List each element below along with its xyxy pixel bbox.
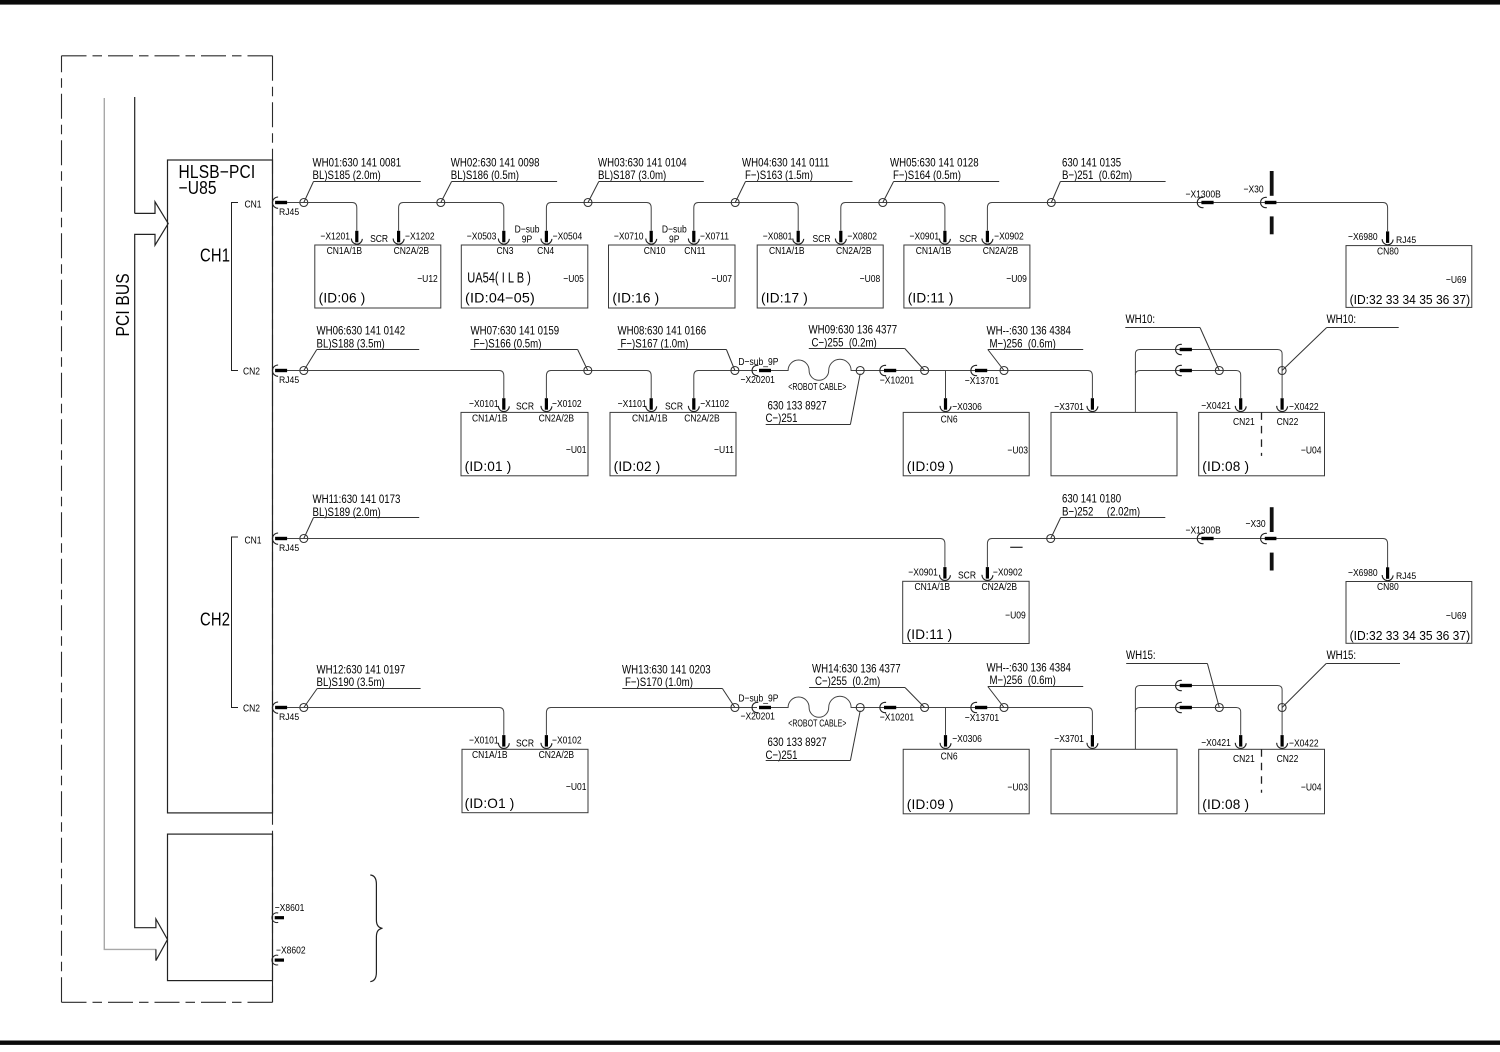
unit box terminal box row2 (1051, 412, 1177, 475)
plug connector -X0306 (CH2) (940, 735, 951, 748)
svg-text:C−)255 (0.2m): C−)255 (0.2m) (815, 675, 881, 688)
plug connector -X0711 (688, 231, 699, 244)
node junction WH09 (921, 367, 929, 375)
plug connector -X3701 (1087, 398, 1098, 411)
node junction WH15 left (1215, 704, 1223, 712)
cable label C-)251 (CH2) (766, 711, 861, 762)
svg-text:PCI BUS: PCI BUS (113, 273, 134, 336)
svg-text:CN1: CN1 (245, 535, 262, 547)
cable label C-)251 (766, 374, 861, 426)
inline connector -X10201 (CH2) (880, 702, 896, 712)
svg-text:CN2A/2B: CN2A/2B (539, 749, 575, 761)
node junction B-)252 (1047, 535, 1055, 543)
svg-text:F−)S164 (0.5m): F−)S164 (0.5m) (893, 169, 961, 182)
cable label WH01 (304, 156, 421, 202)
svg-text:−U01: −U01 (566, 781, 587, 793)
svg-text:(ID:02 ): (ID:02 ) (614, 459, 661, 474)
unit box U69 CN80 (ID:32-37) row1 (1346, 246, 1472, 308)
svg-text:(ID:09 ): (ID:09 ) (907, 797, 954, 812)
node junction WH08 (731, 367, 739, 375)
wire -X0902 to -X6980 (CH2) (987, 539, 1387, 568)
svg-text:SCR: SCR (958, 570, 976, 582)
svg-text:BL)S190 (3.5m): BL)S190 (3.5m) (317, 676, 385, 689)
wire robot cable to -X3701 (856, 371, 1092, 399)
svg-text:−X10201: −X10201 (880, 712, 914, 724)
svg-text:−X0422: −X0422 (1289, 738, 1319, 750)
svg-text:CN2A/2B: CN2A/2B (684, 413, 720, 425)
svg-text:SCR: SCR (665, 401, 683, 413)
svg-text:−U11: −U11 (714, 444, 734, 456)
svg-text:−X0101: −X0101 (469, 398, 499, 410)
node junction WH04/WH05 (879, 199, 887, 207)
svg-text:−X0503: −X0503 (467, 231, 497, 243)
svg-text:RJ45: RJ45 (279, 206, 299, 217)
svg-text:SCR: SCR (516, 738, 534, 750)
svg-text:−U69: −U69 (1446, 274, 1467, 286)
svg-text:CN1A/1B: CN1A/1B (472, 413, 508, 425)
svg-text:CN1A/1B: CN1A/1B (916, 245, 952, 257)
svg-text:−X1300B: −X1300B (1186, 525, 1221, 537)
svg-text:(ID:09 ): (ID:09 ) (907, 459, 954, 474)
plug connector -X0102 (CH2) (541, 735, 552, 748)
svg-text:CN11: CN11 (684, 245, 705, 257)
svg-text:(ID:11 ): (ID:11 ) (907, 627, 953, 642)
svg-text:−X0710: −X0710 (614, 231, 644, 243)
svg-text:F−)S163 (1.5m): F−)S163 (1.5m) (745, 169, 813, 182)
wire CN1 to -X1201 (287, 203, 357, 231)
svg-text:WH06:630 141 0142: WH06:630 141 0142 (317, 325, 406, 338)
bulkhead -X30 (1261, 171, 1277, 234)
svg-text:BL)S185 (2.0m): BL)S185 (2.0m) (313, 169, 381, 182)
PCI bus black line (134, 97, 136, 213)
plug connector -X0504 (541, 231, 552, 244)
svg-text:−X30: −X30 (1244, 184, 1264, 196)
svg-text:RJ45: RJ45 (279, 711, 299, 722)
node junction WH07 (584, 367, 592, 375)
svg-text:−U09: −U09 (1005, 610, 1026, 622)
svg-text:WH15:: WH15: (1327, 649, 1357, 662)
svg-text:C−)251: C−)251 (766, 412, 798, 425)
wire -X1202 to -X0503 (399, 203, 504, 231)
svg-text:(ID:32 33 34 35 36 37): (ID:32 33 34 35 36 37) (1350, 628, 1471, 643)
plug connector -X0421 (1235, 398, 1246, 411)
unit box U09 (ID:11) row1 (904, 245, 1030, 308)
svg-text:CN3: CN3 (497, 245, 514, 257)
node junction robot cable end (CH2) (856, 704, 864, 712)
cable label WH05 (883, 156, 999, 202)
svg-text:CN22: CN22 (1277, 753, 1299, 765)
robot cable squiggle (CH2) (771, 696, 856, 717)
unit box U12 (ID:06) (315, 245, 441, 308)
unit box U05 UA54 (ID:04-05) (461, 245, 588, 308)
cable label B-)252 (1051, 492, 1166, 538)
svg-text:BL)S187 (3.0m): BL)S187 (3.0m) (598, 169, 666, 182)
bottom page border rule (0, 1041, 1500, 1045)
plug connector -X0902 (982, 231, 993, 244)
svg-text:CN21: CN21 (1233, 753, 1255, 765)
plug connector -X0101 (498, 398, 509, 411)
CH2 channel bracket (232, 537, 239, 708)
node junction WH13 (731, 704, 739, 712)
connector -X20201 (CH2) (752, 702, 771, 712)
cable label WH10 right (1282, 313, 1399, 371)
bulkhead -X30 (CH2) (1261, 507, 1277, 570)
wire -X1102 to -X20201 (694, 371, 757, 399)
inline connector lower pair hook (1176, 365, 1192, 375)
cable label WH04 (735, 156, 852, 202)
svg-text:−X0504: −X0504 (553, 231, 583, 243)
unit box terminal box row4 (1051, 749, 1177, 814)
svg-text:M−)256 (0.6m): M−)256 (0.6m) (990, 337, 1057, 350)
lower interface box (168, 834, 273, 981)
ID:08 divider (CH2) (1261, 749, 1263, 793)
svg-text:CN2A/2B: CN2A/2B (982, 581, 1018, 593)
node junction WH01/WH02 (437, 199, 445, 207)
svg-text:RJ45: RJ45 (1396, 571, 1416, 582)
RJ45 connector RJ45 CH2-CN1 (272, 533, 287, 544)
inline connector -X1300B (CH2) (1197, 533, 1213, 543)
RJ45 connector RJ45 CH1-CN1 (272, 197, 287, 208)
unit box U03 (ID:09) row2 (903, 412, 1029, 475)
svg-text:−X0421: −X0421 (1201, 737, 1231, 749)
svg-text:−U69: −U69 (1446, 610, 1467, 622)
connector -X8601 (272, 913, 284, 923)
svg-text:−X20201: −X20201 (741, 374, 775, 386)
svg-text:CN6: CN6 (941, 751, 958, 763)
unit box U69 CN80 (ID:32-37) row3 (1346, 582, 1472, 644)
svg-text:−X0901: −X0901 (908, 567, 938, 579)
svg-text:−U04: −U04 (1301, 782, 1322, 794)
svg-text:−U03: −U03 (1007, 782, 1028, 794)
svg-text:WH03:630 141 0104: WH03:630 141 0104 (598, 156, 687, 169)
svg-text:630 133 8927: 630 133 8927 (768, 399, 827, 412)
node junction WH10 right (1278, 367, 1286, 375)
cable label WH03 (588, 156, 704, 202)
cable label WH-- a (987, 325, 1084, 371)
svg-text:CN2: CN2 (243, 703, 260, 715)
svg-text:−X6980: −X6980 (1348, 231, 1378, 243)
svg-text:−U08: −U08 (860, 273, 881, 285)
cable label WH14 (809, 662, 925, 707)
svg-text:−X8602: −X8602 (276, 945, 306, 957)
svg-text:CH1: CH1 (200, 245, 230, 266)
svg-text:CN1A/1B: CN1A/1B (472, 749, 508, 761)
plug connector -X1101 (646, 398, 657, 411)
svg-text:WH12:630 141 0197: WH12:630 141 0197 (317, 663, 406, 676)
svg-text:−U12: −U12 (417, 273, 438, 285)
unit box U11 (ID:02) (610, 412, 736, 475)
RJ45 connector RJ45 CH1-CN2 (272, 365, 287, 376)
svg-text:−U09: −U09 (1006, 273, 1027, 285)
dash-dot enclosure frame (62, 56, 273, 1003)
svg-text:−X0421: −X0421 (1201, 400, 1231, 412)
svg-text:−X0802: −X0802 (847, 231, 877, 243)
svg-text:SCR: SCR (959, 233, 977, 245)
cable label WH15 right (1282, 649, 1400, 707)
svg-text:RJ45: RJ45 (279, 542, 299, 553)
unit box U01 (ID:01) row4 (462, 749, 588, 812)
svg-text:−U07: −U07 (711, 273, 732, 285)
svg-text:630 133 8927: 630 133 8927 (768, 736, 827, 749)
cable label WH06 (304, 325, 419, 371)
svg-text:−U04: −U04 (1301, 445, 1322, 457)
svg-text:(ID:04−05): (ID:04−05) (465, 291, 535, 306)
cable label WH08 (618, 325, 735, 371)
inline connector -X13701 (971, 365, 987, 375)
plug connector -X0902 (CH2) (982, 567, 993, 580)
svg-text:CN1A/1B: CN1A/1B (769, 245, 805, 257)
wire branch to -X0306 (CH2) (945, 708, 947, 735)
node junction WH03/WH04 (731, 199, 739, 207)
svg-text:−X3701: −X3701 (1054, 401, 1084, 413)
node junction WH-- (1000, 367, 1008, 375)
cable label WH10 left (1125, 313, 1219, 370)
svg-text:CN2A/2B: CN2A/2B (539, 413, 575, 425)
svg-text:D−sub_9P: D−sub_9P (738, 356, 778, 368)
svg-text:RJ45: RJ45 (279, 374, 299, 385)
svg-text:WH--:630 136 4384: WH--:630 136 4384 (987, 325, 1071, 338)
wire -X0102 to -X20201 (CH2) (546, 708, 757, 735)
plug connector -X6980 (CH2) (1382, 567, 1393, 580)
wire riser to WH15 pair (1135, 686, 1282, 750)
svg-text:630 141 0180: 630 141 0180 (1062, 492, 1121, 505)
wire CN1(CH2) to -X0901 (287, 539, 945, 567)
svg-text:SCR: SCR (813, 233, 831, 245)
inline connector -X1300B (1197, 197, 1213, 207)
svg-text:WH15:: WH15: (1126, 649, 1156, 662)
svg-text:F−)S167 (1.0m): F−)S167 (1.0m) (621, 337, 689, 350)
inline connector -X13701 (CH2) (971, 702, 987, 712)
svg-text:(ID:08 ): (ID:08 ) (1202, 797, 1249, 812)
svg-text:WH10:: WH10: (1126, 313, 1156, 326)
cable label WH13 (622, 663, 735, 707)
plug connector -X0101 (CH2) (498, 735, 509, 748)
svg-text:F−)S170 (1.0m): F−)S170 (1.0m) (625, 676, 693, 689)
svg-text:WH05:630 141 0128: WH05:630 141 0128 (890, 156, 979, 169)
svg-text:CN1A/1B: CN1A/1B (632, 413, 668, 425)
svg-text:CN2A/2B: CN2A/2B (394, 245, 430, 257)
node junction WH10 left (1215, 367, 1223, 375)
inline connector lower pair hook (CH2) (1176, 702, 1192, 712)
svg-text:−X0711: −X0711 (700, 231, 729, 243)
wire -X0102 to -X1101 (546, 371, 651, 399)
svg-text:F−)S166 (0.5m): F−)S166 (0.5m) (474, 337, 542, 350)
svg-text:−X0901: −X0901 (910, 231, 940, 243)
svg-text:−X1300B: −X1300B (1186, 189, 1221, 201)
inline connector upper pair hook (CH2) (1176, 680, 1192, 690)
svg-text:WH07:630 141 0159: WH07:630 141 0159 (471, 325, 560, 338)
plug connector -X0306 (940, 398, 951, 411)
svg-text:RJ45: RJ45 (1396, 235, 1416, 246)
svg-text:−X0101: −X0101 (469, 735, 499, 747)
svg-text:−X13701: −X13701 (965, 712, 999, 724)
PCI bus gray line (104, 98, 156, 949)
svg-text:WH--:630 136 4384: WH--:630 136 4384 (987, 661, 1071, 674)
svg-text:−U05: −U05 (563, 273, 584, 285)
svg-text:(ID:01 ): (ID:01 ) (465, 459, 512, 474)
HLSB-PCI board U85 box (168, 160, 273, 813)
svg-text:−X1202: −X1202 (405, 231, 435, 243)
cable label WH07 (470, 325, 587, 371)
cable label WH09 (809, 324, 925, 371)
svg-text:−X1102: −X1102 (700, 398, 729, 410)
svg-text:CN2A/2B: CN2A/2B (983, 245, 1019, 257)
svg-text:WH13:630 141 0203: WH13:630 141 0203 (622, 663, 711, 676)
brace (370, 875, 382, 982)
unit box U04 (ID:08) row2 (1199, 412, 1325, 475)
svg-text:CN1A/1B: CN1A/1B (915, 581, 951, 593)
svg-text:CN4: CN4 (537, 245, 554, 257)
svg-text:−X0306: −X0306 (952, 733, 982, 745)
svg-text:WH04:630 141 0111: WH04:630 141 0111 (742, 156, 829, 169)
inline connector upper pair hook (1176, 344, 1192, 354)
svg-text:CN6: CN6 (941, 414, 958, 426)
plug connector -X0802 (835, 231, 846, 244)
connector -X20201 (752, 365, 771, 375)
plug connector -X1202 (393, 231, 404, 244)
plug connector -X0421 (CH2) (1235, 735, 1246, 748)
stray tick mark (1010, 546, 1022, 548)
svg-text:−X0102: −X0102 (552, 398, 582, 410)
svg-text:SCR: SCR (516, 401, 534, 413)
svg-text:CN2A/2B: CN2A/2B (836, 245, 872, 257)
svg-text:−X0902: −X0902 (994, 231, 1024, 243)
node junction WH02/WH03 (584, 199, 592, 207)
unit box U09 (ID:11) row3 (903, 581, 1029, 643)
cable label WH12 (304, 663, 421, 707)
wire CN2(CH2) to -X0101 (287, 708, 504, 735)
svg-text:−U01: −U01 (566, 444, 587, 456)
svg-text:B−)252 (2.02m): B−)252 (2.02m) (1062, 505, 1140, 518)
cable label WH11 (304, 493, 419, 538)
inline connector -X10201 (880, 365, 896, 375)
cable label WH15 left (1126, 649, 1219, 707)
svg-text:(ID:32 33 34 35 36 37): (ID:32 33 34 35 36 37) (1350, 292, 1471, 307)
svg-text:CN1A/1B: CN1A/1B (327, 245, 363, 257)
svg-text:SCR: SCR (370, 233, 388, 245)
svg-text:M−)256 (0.6m): M−)256 (0.6m) (990, 674, 1057, 687)
svg-text:WH10:: WH10: (1327, 313, 1357, 326)
svg-text:−X0102: −X0102 (552, 735, 582, 747)
RJ45 connector RJ45 CH2-CN2 (272, 702, 287, 713)
svg-text:9P: 9P (522, 234, 532, 246)
svg-text:(ID:17 ): (ID:17 ) (761, 291, 808, 306)
cable label WH-- b (987, 661, 1084, 707)
svg-text:B−)251 (0.62m): B−)251 (0.62m) (1062, 169, 1132, 182)
svg-text:−X1101: −X1101 (618, 398, 647, 410)
plug connector -X0801 (793, 231, 804, 244)
svg-text:630 141 0135: 630 141 0135 (1062, 156, 1121, 169)
wire -X0711 to -X0801 (694, 203, 798, 231)
svg-text:−X0902: −X0902 (993, 567, 1023, 579)
unit box U03 (ID:09) row4 (903, 749, 1029, 814)
svg-text:WH11:630 141 0173: WH11:630 141 0173 (313, 493, 401, 506)
svg-text:−X0306: −X0306 (952, 401, 982, 413)
plug connector -X0503 (498, 231, 509, 244)
connector -X8602 (272, 955, 284, 965)
svg-text:(ID:11 ): (ID:11 ) (908, 291, 954, 306)
svg-text:(ID:O1 ): (ID:O1 ) (465, 796, 515, 811)
svg-text:−X0422: −X0422 (1289, 401, 1319, 413)
unit box U01 (ID:01) row2 (461, 412, 588, 475)
robot cable squiggle (771, 359, 856, 380)
wire -X0802 to -X0901 (841, 203, 945, 231)
unit box U08 (ID:17) (757, 245, 883, 308)
plug connector -X0901 (939, 231, 950, 244)
unit box U07 (ID:16) (609, 245, 736, 308)
svg-text:(ID:06 ): (ID:06 ) (319, 291, 366, 306)
svg-text:BL)S188 (3.5m): BL)S188 (3.5m) (317, 337, 385, 350)
node junction WH05/B-)251 (1047, 199, 1055, 207)
svg-text:−U85: −U85 (179, 178, 217, 199)
svg-text:−X20201: −X20201 (741, 711, 775, 723)
svg-text:9P: 9P (669, 234, 679, 246)
svg-text:CN2: CN2 (243, 366, 260, 378)
plug connector -X6980 (1382, 231, 1393, 244)
svg-text:−X8601: −X8601 (275, 902, 305, 914)
ID:08 divider (1261, 412, 1263, 456)
svg-text:−U03: −U03 (1007, 445, 1028, 457)
svg-text:(ID:08 ): (ID:08 ) (1202, 459, 1249, 474)
svg-text:−X0801: −X0801 (763, 231, 793, 243)
svg-text:WH14:630 136 4377: WH14:630 136 4377 (812, 662, 901, 675)
CH1 channel bracket (232, 203, 239, 371)
svg-text:C−)255 (0.2m): C−)255 (0.2m) (812, 336, 878, 349)
node junction robot cable end (856, 367, 864, 375)
node junction WH-- b (1000, 704, 1008, 712)
svg-text:UA54( I L B ): UA54( I L B ) (467, 269, 531, 286)
svg-text:−X13701: −X13701 (965, 375, 999, 387)
cable label B-)251 (1051, 156, 1165, 202)
svg-text:CN1: CN1 (245, 199, 262, 211)
svg-text:WH09:630 136 4377: WH09:630 136 4377 (809, 324, 898, 337)
top page border rule (0, 0, 1500, 5)
svg-text:BL)S186 (0.5m): BL)S186 (0.5m) (451, 169, 519, 182)
wire CN2 to -X0101 (287, 371, 504, 399)
cable label WH02 (441, 156, 557, 202)
svg-text:−X30: −X30 (1246, 518, 1266, 530)
wire branch to -X0306 (945, 371, 947, 399)
svg-text:CN80: CN80 (1377, 246, 1399, 258)
svg-text:D−sub_9P: D−sub_9P (738, 693, 778, 705)
plug connector -X0102 (541, 398, 552, 411)
svg-text:WH01:630 141 0081: WH01:630 141 0081 (313, 156, 402, 169)
svg-text:CH2: CH2 (200, 609, 230, 630)
wire -X0504 to -X0710 (546, 203, 651, 231)
svg-text:<ROBOT CABLE>: <ROBOT CABLE> (788, 718, 847, 730)
svg-text:(ID:16 ): (ID:16 ) (612, 291, 659, 306)
svg-text:WH08:630 141 0166: WH08:630 141 0166 (618, 325, 707, 338)
svg-text:CN22: CN22 (1277, 416, 1299, 428)
node junction WH15 right (1278, 704, 1286, 712)
node junction WH14 (921, 704, 929, 712)
plug connector -X1201 (351, 231, 362, 244)
plug connector -X0422 (1277, 398, 1288, 411)
svg-text:WH02:630 141 0098: WH02:630 141 0098 (451, 156, 540, 169)
svg-text:CN21: CN21 (1233, 416, 1255, 428)
svg-text:CN10: CN10 (644, 245, 666, 257)
unit box U04 (ID:08) row4 (1199, 749, 1325, 814)
bus arrow into HLSB board (135, 202, 169, 961)
svg-text:−X3701: −X3701 (1054, 733, 1084, 745)
svg-text:−X1201: −X1201 (320, 231, 350, 243)
wire riser to WH10 pair (1135, 350, 1282, 413)
svg-text:<ROBOT CABLE>: <ROBOT CABLE> (788, 381, 847, 393)
plug connector -X0901 (CH2) (939, 567, 950, 580)
node junction CH2-CN1 cable start (300, 535, 308, 543)
svg-text:−X6980: −X6980 (1348, 567, 1378, 579)
node junction CH1-CN1 cable start (300, 199, 308, 207)
